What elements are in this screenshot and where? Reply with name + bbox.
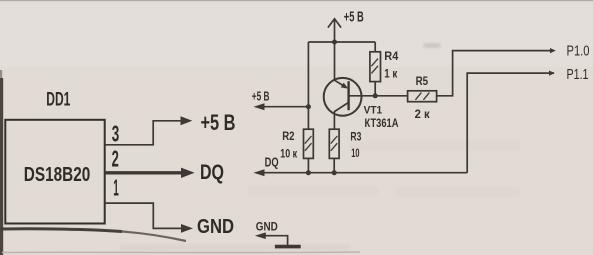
svg-text:10: 10 <box>351 146 359 160</box>
svg-text:2 к: 2 к <box>415 107 431 121</box>
svg-text:GND: GND <box>197 215 234 238</box>
svg-text:КТ361А: КТ361А <box>365 118 399 130</box>
svg-text:DD1: DD1 <box>46 88 70 110</box>
svg-text:+5 В: +5 В <box>252 89 270 104</box>
svg-text:R2: R2 <box>282 129 294 143</box>
svg-text:10 к: 10 к <box>280 147 297 161</box>
svg-text:DS18B20: DS18B20 <box>24 163 91 186</box>
svg-text:P1.0: P1.0 <box>567 44 590 60</box>
svg-text:+5 В: +5 В <box>344 9 364 25</box>
svg-text:1: 1 <box>113 175 119 201</box>
svg-text:2: 2 <box>112 146 119 172</box>
svg-text:DQ: DQ <box>265 155 279 170</box>
svg-text:R5: R5 <box>416 74 429 88</box>
svg-text:R4: R4 <box>384 49 398 63</box>
svg-text:DQ: DQ <box>200 160 224 184</box>
svg-text:3: 3 <box>112 121 120 147</box>
svg-text:1 к: 1 к <box>384 67 398 81</box>
svg-text:+5 В: +5 В <box>201 110 236 135</box>
svg-text:GND: GND <box>256 219 278 233</box>
svg-text:P1.1: P1.1 <box>567 67 589 83</box>
svg-text:R3: R3 <box>350 130 361 144</box>
svg-text:VT1: VT1 <box>364 105 383 117</box>
